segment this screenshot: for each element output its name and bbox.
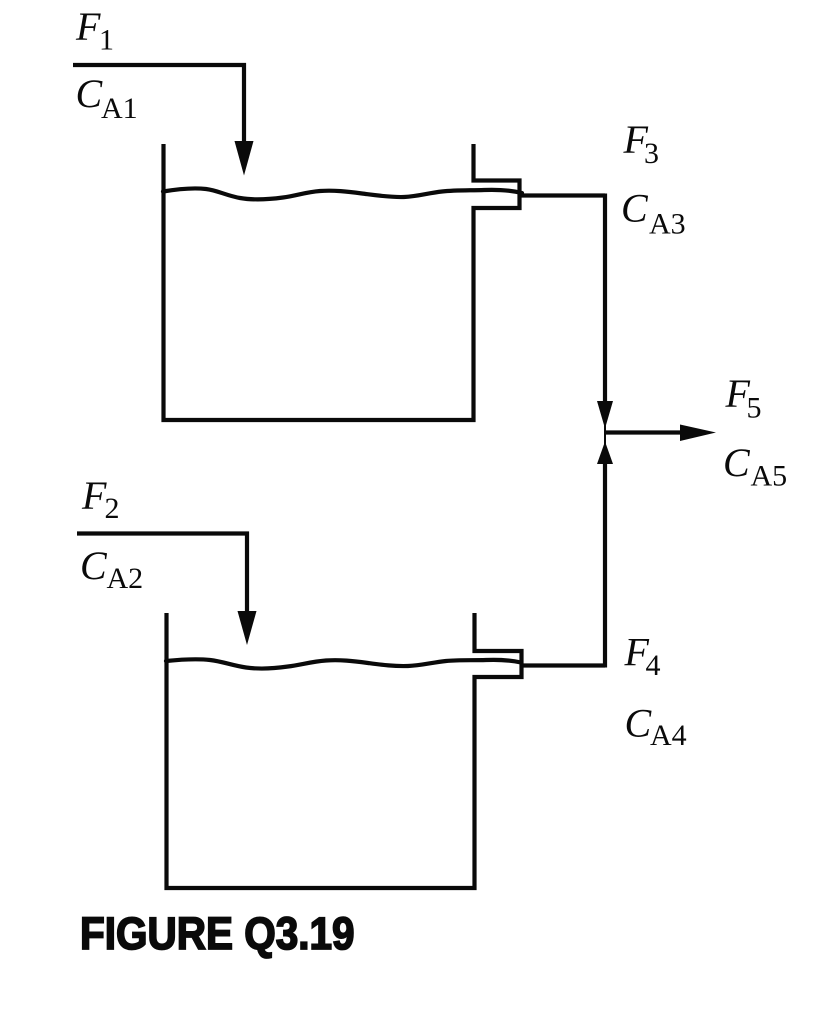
svg-text:2: 2 xyxy=(105,492,120,525)
svg-text:C: C xyxy=(80,543,108,588)
svg-text:C: C xyxy=(625,701,653,746)
svg-text:FIGURE Q3.19: FIGURE Q3.19 xyxy=(80,909,355,959)
svg-text:C: C xyxy=(621,186,649,231)
svg-text:4: 4 xyxy=(646,649,661,682)
svg-text:A5: A5 xyxy=(751,460,788,493)
svg-text:5: 5 xyxy=(747,392,762,425)
svg-text:1: 1 xyxy=(99,24,114,57)
svg-text:A4: A4 xyxy=(650,719,687,752)
svg-text:C: C xyxy=(723,440,751,485)
svg-text:F: F xyxy=(75,4,101,49)
svg-text:A3: A3 xyxy=(649,208,686,241)
svg-text:A1: A1 xyxy=(101,92,138,125)
svg-text:C: C xyxy=(76,71,104,116)
svg-text:3: 3 xyxy=(644,137,659,170)
svg-text:F: F xyxy=(81,473,107,518)
svg-text:A2: A2 xyxy=(107,562,144,595)
